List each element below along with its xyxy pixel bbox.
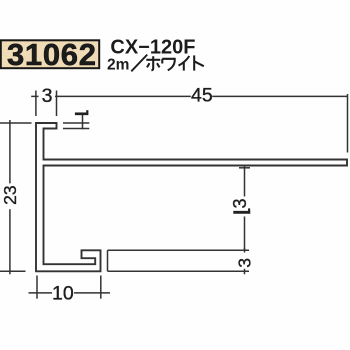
svg-text:3: 3 — [234, 258, 254, 268]
svg-text:23: 23 — [0, 185, 20, 204]
svg-text:3: 3 — [42, 85, 53, 107]
svg-text:3: 3 — [230, 198, 250, 208]
svg-text:10: 10 — [52, 282, 74, 304]
svg-text:2m: 2m — [107, 57, 129, 74]
svg-text:31062: 31062 — [7, 37, 97, 72]
svg-text:CX−120F: CX−120F — [110, 37, 195, 59]
svg-text:45: 45 — [191, 84, 213, 106]
